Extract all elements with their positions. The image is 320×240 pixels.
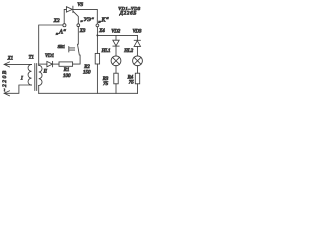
thyristor gate lead [73, 11, 78, 24]
node junction dot [96, 34, 98, 36]
wire R4 down to bus [137, 84, 139, 94]
wire R2 down to bus [96, 64, 98, 93]
resistor R2 [95, 53, 99, 64]
svg-text:R2: R2 [83, 65, 90, 70]
diode VD1 bar [52, 61, 54, 66]
diode VD2 bar [113, 45, 119, 47]
wire SB1 down to R1 [73, 55, 80, 64]
wire junction to VD1 anode [39, 63, 47, 65]
svg-text:Д226Б: Д226Б [119, 12, 137, 17]
svg-text:X2: X2 [53, 18, 60, 24]
wire X4 down to node [96, 27, 98, 36]
wire VD3 to HL2 [136, 46, 138, 56]
lamp HL1 [111, 56, 121, 66]
diode VD2 triangle [113, 40, 119, 46]
wire HL1 to R3 [115, 66, 117, 74]
transformer T1 primary winding I [28, 64, 31, 85]
wire VD1 cathode to R1 [53, 63, 59, 65]
svg-text:VS: VS [77, 3, 83, 8]
wire secondary bottom lead [38, 85, 40, 93]
wire bus to VD3 [97, 34, 137, 36]
terminal X4 [96, 24, 99, 27]
switch SB1 button [69, 47, 75, 52]
svg-text:„А“: „А“ [56, 29, 67, 36]
diode VD3 triangle [134, 41, 140, 47]
wire bus down to VD3 [136, 35, 138, 40]
svg-text:X3: X3 [79, 29, 86, 34]
thyristor VS cathode bar [72, 6, 74, 12]
svg-text:VD2: VD2 [111, 30, 120, 35]
wire bus down to VD2 [115, 35, 117, 40]
svg-text:T1: T1 [29, 55, 34, 60]
svg-text:HL1: HL1 [101, 49, 111, 54]
svg-text:R1: R1 [63, 68, 70, 73]
resistor R3 [114, 73, 118, 84]
svg-text:„УЭ“: „УЭ“ [80, 16, 94, 23]
svg-text:75: 75 [103, 82, 109, 87]
svg-text:I: I [20, 76, 24, 82]
wire X2 up to anode [64, 9, 66, 23]
svg-text:X4: X4 [98, 29, 105, 34]
mains plug bottom lead arrow [4, 85, 31, 96]
wire secondary top lead / X2 branch [39, 25, 63, 65]
svg-text:75: 75 [129, 81, 135, 86]
svg-text:150: 150 [83, 71, 91, 76]
svg-text:„К“: „К“ [98, 17, 109, 24]
svg-text:VD1: VD1 [45, 54, 54, 59]
switch SB1 contact [78, 44, 80, 55]
terminal X2 [63, 24, 66, 27]
mains plug X1 top lead arrow [4, 62, 31, 67]
svg-text:SB1: SB1 [58, 44, 65, 49]
diode VD3 bar [134, 39, 140, 41]
svg-text:~220В: ~220В [2, 69, 8, 91]
wire VD2 to HL1 [115, 46, 117, 56]
transformer core [35, 64, 37, 91]
svg-text:X1: X1 [7, 56, 14, 61]
svg-text:HL2: HL2 [123, 49, 133, 54]
resistor R1 [59, 62, 73, 66]
svg-text:II: II [43, 69, 48, 74]
resistor R4 [135, 73, 139, 84]
svg-text:VD1–VD3: VD1–VD3 [118, 6, 141, 11]
bottom bus wire [39, 92, 138, 94]
lamp HL2 [133, 56, 143, 66]
terminal X3 [77, 24, 80, 27]
thyristor VS triangle [66, 7, 72, 12]
wire node down to R2 [96, 35, 98, 53]
diode VD1 triangle [47, 61, 53, 66]
wire cathode to X4 [73, 9, 97, 24]
wire X3 down to SB1 [77, 27, 79, 45]
wire HL2 to R4 [137, 66, 139, 74]
transformer secondary winding II [39, 65, 42, 85]
wire R3 down to bus [115, 84, 117, 94]
svg-text:100: 100 [63, 74, 71, 79]
svg-text:VD3: VD3 [133, 30, 142, 35]
